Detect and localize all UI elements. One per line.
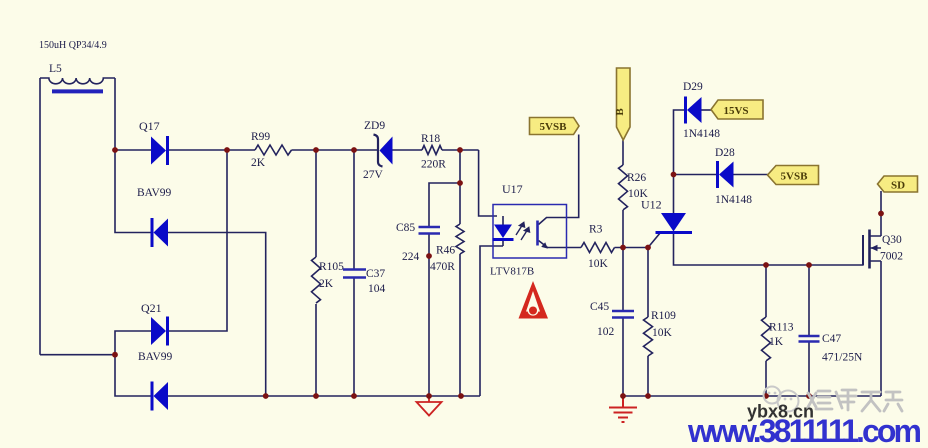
svg-text:2K: 2K [251, 157, 266, 169]
svg-text:7002: 7002 [880, 251, 903, 263]
node L5/Q17 [112, 147, 118, 153]
svg-text:471/25N: 471/25N [822, 352, 863, 364]
svg-text:Q17: Q17 [139, 119, 160, 133]
svg-text:D29: D29 [683, 81, 703, 93]
node R113 top [763, 262, 769, 268]
svg-text:470R: 470R [430, 261, 455, 273]
wire top rail segments [115, 150, 497, 216]
wire R113 branch [765, 265, 767, 396]
diode Q21 lower [152, 382, 168, 411]
node C37 top [351, 147, 357, 153]
wire C85 branch [429, 183, 460, 396]
svg-text:2K: 2K [319, 278, 334, 290]
diode Q17 upper [151, 136, 168, 165]
wire U12 cathode to gate rail [674, 233, 864, 266]
node D28 [671, 172, 677, 178]
watermark logo [764, 387, 799, 412]
node C47 top [806, 262, 812, 268]
capacitor C37 [343, 270, 366, 278]
svg-text:www.3811111.com: www.3811111.com [687, 413, 921, 443]
wire LED cathode to rail [480, 246, 503, 396]
wire Q21 row [115, 150, 227, 355]
node rail x265 [263, 393, 269, 399]
svg-text:R3: R3 [589, 224, 603, 236]
transistor U17 photo [538, 221, 548, 249]
warning mark A [519, 281, 549, 319]
node R105 top [313, 147, 319, 153]
node rail R105 [313, 393, 319, 399]
ground red open triangle [417, 396, 442, 416]
power flag SD [878, 176, 918, 192]
svg-text:R26: R26 [627, 172, 646, 184]
svg-text:150uH QP34/4.9: 150uH QP34/4.9 [39, 40, 107, 51]
watermark chinese [808, 390, 902, 411]
svg-text:R99: R99 [251, 131, 270, 143]
diode U17 LED [493, 216, 514, 246]
svg-text:Q21: Q21 [141, 301, 162, 315]
resistor R105 [312, 257, 321, 303]
power flag 5VSB left [530, 118, 580, 135]
op-amp U12 shunt regulator [656, 213, 693, 233]
wire C45 branch [622, 248, 624, 397]
node rail C47 [806, 393, 812, 399]
svg-text:R109: R109 [651, 310, 676, 322]
wire R109 branch [647, 248, 649, 397]
power flag 15VS [711, 100, 763, 119]
resistor R26 [619, 165, 628, 210]
wire D29 to 15VS [702, 109, 712, 111]
svg-text:L5: L5 [49, 63, 62, 75]
svg-text:1N4148: 1N4148 [683, 128, 720, 140]
op-amp U17 optocoupler box [493, 205, 567, 259]
svg-text:R113: R113 [769, 322, 794, 334]
wire R3 to node B [615, 233, 661, 248]
svg-text:5VSB: 5VSB [540, 121, 568, 133]
svg-text:U12: U12 [641, 198, 662, 212]
resistor R18 [422, 146, 442, 155]
wire R46 branch [459, 150, 461, 396]
node Q21 left [112, 352, 118, 358]
wire U17 light arrows [516, 223, 530, 241]
diode Q21 upper [151, 317, 168, 346]
wire U12 anode up to D29/D28 node [674, 110, 686, 213]
wire tag to R26 [622, 140, 624, 248]
capacitor C85 [419, 227, 441, 234]
capacitor C45 [612, 311, 634, 318]
svg-text:224: 224 [402, 251, 420, 263]
svg-text:102: 102 [597, 326, 615, 338]
svg-text:Q30: Q30 [882, 234, 902, 246]
node rail C37 [351, 393, 357, 399]
wire D28 row [674, 174, 768, 176]
svg-text:C45: C45 [590, 301, 609, 313]
svg-text:5VSB: 5VSB [781, 171, 809, 183]
wire Q21 lower-diode / bottom-left rail [115, 355, 480, 396]
wire C47 branch [808, 265, 810, 396]
resistor R3 [581, 243, 615, 253]
svg-text:1K: 1K [769, 336, 784, 348]
wire Q30 drain and source [880, 191, 882, 396]
resistor R99 [255, 145, 292, 155]
svg-text:R105: R105 [319, 261, 344, 273]
wire bottom-left link [40, 354, 115, 356]
svg-text:BAV99: BAV99 [138, 351, 173, 363]
diode Q17 lower [152, 218, 168, 247]
node Q30 drain [878, 211, 884, 217]
node R18 right [457, 147, 463, 153]
capacitor C47 [799, 336, 820, 342]
svg-text:1N4148: 1N4148 [715, 194, 752, 206]
resistor R109 [644, 317, 653, 356]
zener ZD9 [374, 135, 393, 167]
node dots [112, 147, 884, 399]
wire bottom-right rail [623, 395, 881, 397]
svg-text:220R: 220R [421, 159, 446, 171]
ground earth red [609, 396, 637, 422]
wire opto collector to 5VSB [539, 135, 579, 225]
svg-text:C47: C47 [822, 333, 841, 345]
svg-text:SD: SD [891, 180, 905, 192]
svg-text:D28: D28 [715, 147, 735, 159]
svg-text:LTV817B: LTV817B [490, 266, 534, 278]
svg-text:C37: C37 [366, 268, 385, 280]
node C85/R46 [457, 180, 463, 186]
node C85 mid [426, 253, 432, 259]
diode D29 [686, 97, 702, 124]
svg-text:BAV99: BAV99 [137, 187, 172, 199]
wire Q17 lower-diode row [115, 150, 266, 396]
node rail R46 [458, 393, 464, 399]
node rail R113 [763, 393, 769, 399]
node R3/C45 [620, 245, 626, 251]
node rail C45 [620, 393, 626, 399]
svg-text:10K: 10K [652, 327, 673, 339]
svg-text:R18: R18 [421, 133, 440, 145]
wire opto emitter to R3 [539, 241, 582, 248]
power flag 5VSB right [768, 166, 819, 185]
svg-text:C85: C85 [396, 222, 415, 234]
resistor R46 [456, 224, 464, 254]
resistor R113 [762, 317, 771, 361]
transistor Q30 [863, 230, 881, 269]
wire C37 branch [353, 150, 355, 396]
node rail C85 [426, 393, 432, 399]
node R109/gate [645, 245, 651, 251]
svg-text:ZD9: ZD9 [364, 120, 385, 132]
svg-text:15VS: 15VS [723, 105, 748, 117]
svg-text:U17: U17 [502, 182, 523, 196]
node rail R109 [645, 393, 651, 399]
wire left outer vertical [39, 78, 41, 355]
svg-text:104: 104 [368, 283, 386, 295]
wire R105 branch [315, 150, 317, 396]
inductor L5 [40, 78, 115, 150]
power flag vertical tag [614, 68, 630, 140]
diode D28 [718, 161, 734, 188]
svg-text:27V: 27V [363, 169, 384, 181]
node Q17 cathode [224, 147, 230, 153]
svg-text:B: B [614, 108, 626, 116]
svg-text:10K: 10K [588, 258, 609, 270]
svg-text:R46: R46 [436, 245, 455, 257]
